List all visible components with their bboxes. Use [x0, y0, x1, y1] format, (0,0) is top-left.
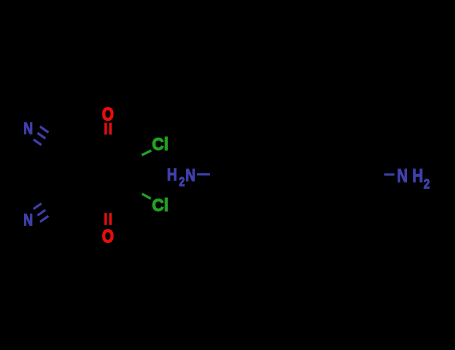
svg-text:N: N	[397, 165, 408, 186]
svg-text:2: 2	[179, 175, 185, 189]
bond C3-CN dark (lower nitrile C-C)	[51, 191, 80, 208]
bond C5-Cl2 green half	[142, 194, 151, 199]
svg-text:N: N	[23, 211, 33, 230]
ring 2 (benzidine left phenyl, near-invisible)	[213, 146, 279, 203]
bond C aryl-N blue stub (right amine)	[384, 173, 394, 175]
bond C5-Cl2 dark half (lower chlorine)	[136, 191, 142, 194]
svg-text:N: N	[23, 120, 33, 139]
bond N-C aryl blue stub (left amine)	[197, 173, 210, 175]
svg-text:Cl: Cl	[152, 134, 169, 155]
bond C#N2 triple, blue dashes (lower nitrile)	[34, 203, 49, 222]
bond C4=O2 dark half (bottom carbonyl)	[106, 207, 111, 214]
svg-text:O: O	[102, 104, 114, 125]
label NH2 (right amine of benzidine)	[397, 165, 430, 191]
ring 1 (quinone ring of DDQ, near-invisible carbon skeleton)	[79, 141, 136, 207]
svg-text:Cl: Cl	[152, 195, 169, 216]
svg-text:H: H	[412, 165, 423, 186]
svg-text:O: O	[102, 226, 114, 247]
bond C#N1 dark completions (upper nitrile toward C)	[42, 133, 55, 150]
svg-text:H: H	[167, 166, 177, 185]
bond C1=O1 red half (top carbonyl)	[106, 123, 111, 135]
bond C1=O1 dark half (top carbonyl)	[106, 134, 111, 142]
bond ring2-ring3 (biphenyl link, near-invisible)	[279, 174, 316, 176]
ring 3 (benzidine right phenyl, near-invisible)	[316, 146, 382, 203]
bond C6-Cl1 green half	[142, 151, 152, 156]
bond C2-CN dark (upper nitrile C-C)	[51, 141, 80, 158]
bond C aryl-N dark continuation (right amine)	[382, 174, 385, 176]
bond N-C aryl dark continuation (left amine)	[210, 173, 213, 176]
bond C#N1 triple, blue dashes (upper nitrile)	[34, 127, 49, 146]
bond C#N2 dark completions (lower nitrile toward C)	[42, 199, 55, 216]
bond C6-Cl1 dark half (upper chlorine)	[136, 155, 142, 158]
svg-text:N: N	[185, 167, 195, 186]
label H2N (left amine of benzidine)	[167, 166, 196, 189]
svg-text:2: 2	[424, 176, 430, 191]
bond C4=O2 red half (bottom carbonyl)	[106, 213, 111, 225]
